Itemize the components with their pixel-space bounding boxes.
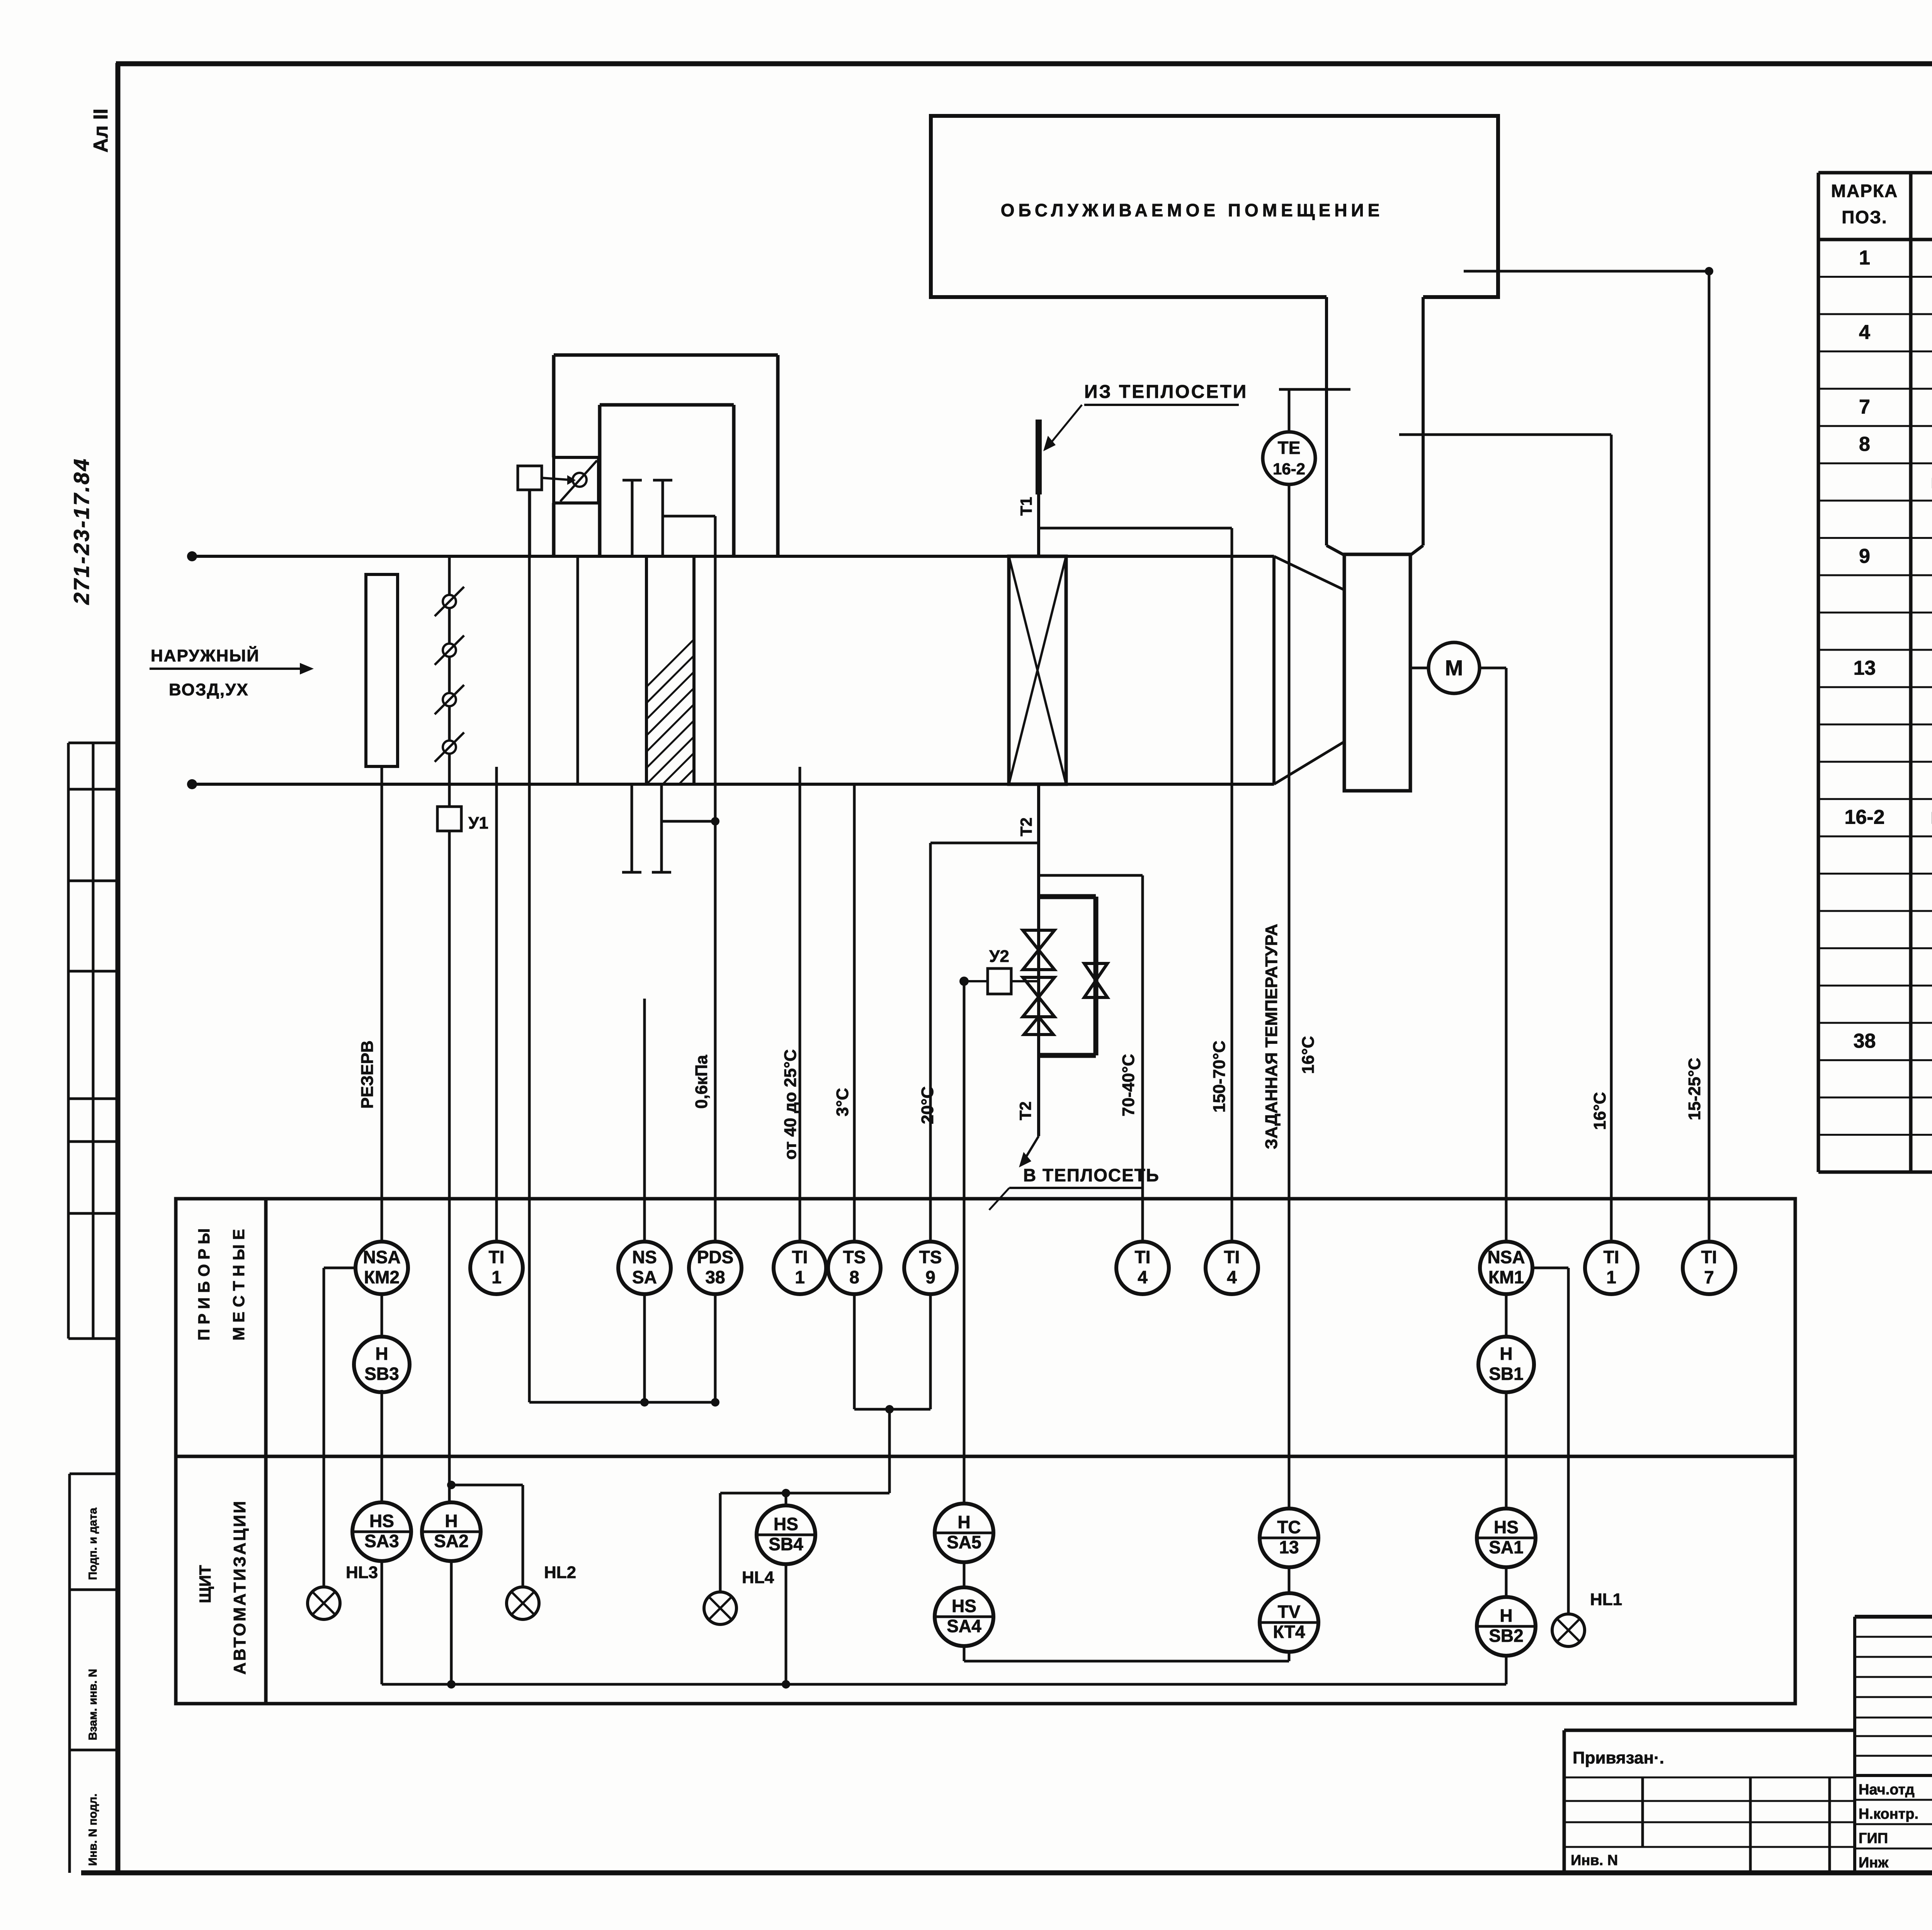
svg-text:Т1: Т1 [1017, 497, 1035, 516]
svg-text:NSA: NSA [1487, 1247, 1525, 1267]
svg-text:38: 38 [705, 1267, 725, 1287]
svg-text:20°С: 20°С [918, 1086, 937, 1124]
svg-text:У2: У2 [989, 947, 1009, 966]
svg-text:ТI: ТI [1604, 1247, 1619, 1267]
svg-text:SВ3: SВ3 [364, 1364, 399, 1384]
svg-text:4: 4 [1859, 321, 1870, 343]
svg-text:Т2: Т2 [1017, 817, 1035, 836]
svg-text:HL4: HL4 [742, 1568, 774, 1587]
svg-text:ЗАДАННАЯ ТЕМПЕРАТУРА: ЗАДАННАЯ ТЕМПЕРАТУРА [1262, 924, 1281, 1149]
svg-text:70-40°С: 70-40°С [1119, 1054, 1138, 1116]
svg-text:ТI: ТI [792, 1247, 808, 1267]
svg-text:ТI: ТI [1701, 1247, 1717, 1267]
svg-text:15-25°С: 15-25°С [1685, 1058, 1704, 1120]
svg-text:ТS: ТS [919, 1247, 942, 1267]
svg-text:Н: Н [1500, 1344, 1512, 1364]
svg-text:Т2: Т2 [1016, 1101, 1034, 1120]
svg-text:НS: НS [369, 1511, 394, 1531]
svg-text:Инв. N: Инв. N [1571, 1852, 1618, 1869]
svg-text:ТS: ТS [843, 1247, 866, 1267]
svg-text:ТI: ТI [489, 1247, 505, 1267]
svg-text:от 40 до 25°С: от 40 до 25°С [781, 1049, 800, 1160]
svg-text:НS: НS [774, 1514, 798, 1534]
svg-text:КТ4: КТ4 [1273, 1622, 1305, 1642]
svg-text:SВ4: SВ4 [769, 1534, 803, 1554]
svg-text:8: 8 [849, 1267, 859, 1287]
svg-text:16°С: 16°С [1590, 1092, 1609, 1130]
svg-text:1: 1 [795, 1267, 805, 1287]
svg-text:КМ2: КМ2 [364, 1267, 400, 1287]
svg-text:9: 9 [925, 1267, 935, 1287]
svg-text:HL2: HL2 [544, 1563, 576, 1582]
svg-text:HL1: HL1 [1590, 1590, 1622, 1609]
svg-text:NSA: NSA [363, 1247, 400, 1267]
svg-text:1: 1 [492, 1267, 502, 1287]
svg-text:Н: Н [445, 1511, 457, 1531]
svg-text:7: 7 [1859, 396, 1870, 418]
svg-text:13: 13 [1279, 1537, 1299, 1557]
svg-text:ТI: ТI [1224, 1247, 1240, 1267]
svg-text:4: 4 [1138, 1267, 1148, 1287]
svg-text:SВ2: SВ2 [1489, 1626, 1523, 1646]
svg-text:Привязан·.: Привязан·. [1573, 1748, 1664, 1767]
svg-text:PDS: PDS [697, 1247, 734, 1267]
svg-text:SА4: SА4 [947, 1616, 981, 1636]
svg-text:Н: Н [957, 1512, 970, 1532]
svg-text:HL3: HL3 [346, 1563, 378, 1582]
svg-text:ТV: ТV [1278, 1602, 1301, 1622]
svg-text:РЕЗЕРВ: РЕЗЕРВ [358, 1040, 377, 1109]
svg-text:ОБСЛУЖИВАЕМОЕ ПОМЕЩЕНИЕ: ОБСЛУЖИВАЕМОЕ ПОМЕЩЕНИЕ [1001, 200, 1384, 220]
svg-text:38: 38 [1854, 1030, 1876, 1052]
svg-text:ТС: ТС [1277, 1517, 1301, 1537]
svg-text:7: 7 [1704, 1267, 1714, 1287]
svg-text:16°С: 16°С [1299, 1036, 1318, 1074]
svg-text:SВ1: SВ1 [1489, 1364, 1523, 1384]
svg-text:3°С: 3°С [833, 1088, 852, 1116]
svg-text:ПОЗ.: ПОЗ. [1842, 207, 1887, 227]
svg-text:В ТЕПЛОСЕТЬ: В ТЕПЛОСЕТЬ [1023, 1165, 1160, 1185]
svg-text:Ал II: Ал II [90, 109, 112, 153]
svg-text:МАРКА: МАРКА [1831, 181, 1898, 201]
svg-text:КМ1: КМ1 [1488, 1267, 1524, 1287]
svg-text:150-70°С: 150-70°С [1210, 1041, 1229, 1113]
svg-text:НАРУЖНЫЙ: НАРУЖНЫЙ [151, 646, 260, 665]
svg-text:Инж: Инж [1859, 1855, 1889, 1871]
svg-text:ГИП: ГИП [1859, 1830, 1888, 1847]
svg-text:Н: Н [1500, 1606, 1512, 1626]
svg-text:SА5: SА5 [947, 1532, 981, 1552]
svg-text:SA: SA [632, 1267, 657, 1287]
svg-text:NS: NS [632, 1247, 657, 1267]
svg-text:271-23-17.84: 271-23-17.84 [69, 457, 94, 605]
svg-text:ВОЗД,УХ: ВОЗД,УХ [169, 680, 249, 699]
svg-text:16-2: 16-2 [1273, 460, 1305, 478]
svg-text:П Р И Б О Р Ы: П Р И Б О Р Ы [195, 1228, 213, 1340]
svg-text:1: 1 [1859, 246, 1870, 269]
svg-text:НS: НS [1494, 1517, 1519, 1537]
svg-text:9: 9 [1859, 545, 1870, 567]
svg-text:ТЕ: ТЕ [1278, 438, 1301, 458]
svg-text:1: 1 [1606, 1267, 1616, 1287]
svg-text:Взам. инв. N: Взам. инв. N [87, 1669, 99, 1740]
svg-text:Нач.отд: Нач.отд [1859, 1782, 1915, 1798]
svg-text:Инв. N подл.: Инв. N подл. [87, 1794, 99, 1866]
svg-text:М: М [1445, 656, 1463, 680]
svg-text:АВТОМАТИЗАЦИИ: АВТОМАТИЗАЦИИ [230, 1500, 249, 1675]
svg-text:ЩИТ: ЩИТ [196, 1565, 214, 1603]
svg-text:НS: НS [952, 1596, 976, 1616]
svg-text:ТI: ТI [1135, 1247, 1151, 1267]
svg-text:SА1: SА1 [1489, 1537, 1523, 1557]
svg-text:13: 13 [1854, 657, 1876, 679]
svg-text:0,6кПа: 0,6кПа [692, 1055, 711, 1109]
svg-text:4: 4 [1227, 1267, 1237, 1287]
svg-text:Н.контр.: Н.контр. [1859, 1806, 1918, 1822]
svg-text:SА2: SА2 [434, 1531, 468, 1551]
svg-text:М Е С Т Н Ы Е: М Е С Т Н Ы Е [230, 1229, 248, 1340]
svg-text:16-2: 16-2 [1844, 806, 1884, 829]
svg-text:8: 8 [1859, 433, 1870, 455]
svg-text:SА3: SА3 [364, 1531, 399, 1551]
svg-text:У1: У1 [468, 814, 488, 832]
svg-text:Н: Н [375, 1344, 388, 1364]
svg-text:Подп. и дата: Подп. и дата [87, 1507, 99, 1580]
svg-text:ИЗ ТЕПЛОСЕТИ: ИЗ ТЕПЛОСЕТИ [1084, 382, 1248, 402]
